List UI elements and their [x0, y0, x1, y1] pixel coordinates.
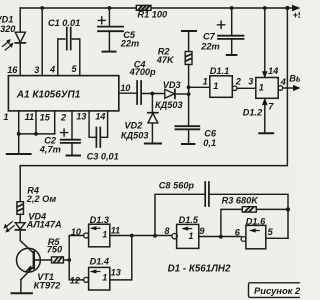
- wire VT1 base to R5: [34, 259, 52, 261]
- capacitor C8 branch: [155, 182, 288, 238]
- svg-text:11: 11: [25, 112, 35, 122]
- diode VD3: [165, 89, 189, 98]
- svg-text:1: 1: [102, 272, 107, 282]
- D1.2 pin 7 ground wire with arrow: [259, 99, 273, 134]
- wire right supply drop and lower feed: [20, 8, 287, 202]
- svg-text:3: 3: [248, 77, 253, 87]
- wire VD1 anode from rail: [19, 8, 21, 32]
- D1.2 pin 14 supply wire with arrow: [262, 8, 267, 77]
- svg-text:3: 3: [34, 65, 39, 75]
- inverter D1.6: [241, 225, 266, 248]
- svg-text:5: 5: [72, 64, 78, 74]
- node junction dot C5 rail: [108, 6, 112, 10]
- node junction dot gate input: [187, 85, 191, 89]
- resistor R1: [136, 5, 151, 10]
- capacitor C5 electrolytic: [98, 8, 123, 52]
- VD1 light arrows: [3, 40, 13, 51]
- svg-text:C6: C6: [204, 129, 217, 139]
- svg-text:D1.1: D1.1: [210, 66, 229, 76]
- svg-text:15: 15: [40, 112, 51, 122]
- svg-text:D1.4: D1.4: [90, 257, 109, 267]
- LED VD4: [15, 223, 25, 230]
- svg-text:4: 4: [49, 65, 55, 75]
- svg-text:13: 13: [76, 112, 86, 122]
- svg-text:11: 11: [111, 226, 121, 236]
- svg-text:13: 13: [111, 267, 121, 277]
- svg-text:КД503: КД503: [155, 100, 183, 110]
- wire pins 1 11 15 common: [7, 111, 55, 154]
- svg-text:14: 14: [95, 112, 105, 122]
- node junction dot 11-13: [130, 234, 134, 238]
- wire to D1.5 input: [132, 235, 172, 237]
- svg-text:1: 1: [3, 112, 8, 122]
- IC A1 K1056UP1 box: [8, 76, 118, 111]
- wire top supply rail left segment: [20, 7, 136, 9]
- VD4 light arrows: [4, 222, 14, 233]
- wire D1.3 output: [110, 235, 132, 237]
- wire VD1 cathode to pin 16: [19, 43, 21, 76]
- svg-text:VD3: VD3: [163, 80, 181, 90]
- svg-text:1: 1: [203, 77, 208, 87]
- svg-text:R1 100: R1 100: [138, 10, 169, 20]
- wire D1.2 output with arrow Vyh: [283, 85, 300, 90]
- svg-text:5: 5: [268, 227, 274, 237]
- svg-text:1: 1: [259, 82, 264, 92]
- resistor R3 branch: [221, 207, 288, 237]
- diode VD2: [145, 94, 161, 144]
- svg-text:D1.6: D1.6: [246, 216, 266, 226]
- resistor R5: [52, 257, 64, 263]
- resistor R4: [17, 202, 24, 215]
- svg-text:D1.2: D1.2: [243, 107, 263, 117]
- node junction dot pin14 rail: [263, 6, 267, 10]
- svg-text:С3 0,01: С3 0,01: [87, 151, 119, 161]
- svg-text:Вых: Вых: [289, 73, 300, 83]
- node junction dot VD3 cathode: [187, 92, 191, 96]
- node junction dot base: [67, 258, 71, 262]
- svg-text:47K: 47K: [156, 55, 175, 65]
- svg-text:4700p: 4700p: [129, 67, 156, 77]
- svg-text:750: 750: [47, 245, 63, 255]
- svg-text:VD1: VD1: [0, 14, 13, 24]
- node junction dot pin3 rail: [40, 6, 44, 10]
- wire R5 to gate inputs: [63, 259, 69, 261]
- wire D1.6 output: [266, 237, 288, 239]
- svg-text:АЛ147А: АЛ147А: [26, 219, 62, 229]
- svg-text:10: 10: [71, 227, 82, 237]
- svg-text:22m: 22m: [120, 39, 139, 49]
- inverter D1.5: [172, 224, 199, 248]
- svg-text:1: 1: [188, 231, 193, 241]
- node junction dot C7 rail: [230, 6, 234, 10]
- photodiode VD1: [15, 32, 25, 43]
- resistor R2 with top rail stub: [182, 31, 196, 126]
- svg-text:КТ972: КТ972: [34, 281, 62, 291]
- svg-text:Рисунок 2.: Рисунок 2.: [254, 285, 300, 296]
- wire D1.1 output to D1.2: [237, 87, 256, 89]
- svg-text:14: 14: [268, 66, 278, 76]
- svg-text:8: 8: [164, 226, 170, 236]
- node junction dot R3 left: [219, 235, 223, 239]
- wire pin 3 from rail: [41, 8, 43, 76]
- node junction dot R3 right: [286, 207, 290, 211]
- svg-text:2,2 Ом: 2,2 Ом: [26, 194, 57, 204]
- supply arrow +9V: [292, 5, 299, 11]
- wire VD4 to VT1 collector: [20, 230, 34, 253]
- capacitor C1: [58, 28, 80, 76]
- inverter D1.4: [84, 267, 110, 290]
- svg-text:22m: 22m: [200, 42, 219, 52]
- svg-text:1: 1: [213, 81, 218, 91]
- svg-text:16: 16: [7, 65, 18, 75]
- svg-text:10: 10: [120, 83, 131, 93]
- svg-text:C1 0.01: C1 0.01: [48, 18, 80, 28]
- node junction dot pin11: [34, 132, 38, 136]
- capacitor C3: [89, 111, 108, 147]
- inverter D1.1: [210, 76, 237, 98]
- svg-text:0,1: 0,1: [203, 138, 216, 148]
- svg-text:4: 4: [280, 77, 286, 87]
- svg-text:D1 - К561ЛН2: D1 - К561ЛН2: [168, 263, 231, 274]
- svg-text:ФД320: ФД320: [0, 24, 16, 34]
- inverter D1.2: [256, 78, 283, 99]
- wire D1.5 output to D1.6: [199, 236, 241, 238]
- node junction dot C4 VD2: [151, 92, 155, 96]
- caption box: [249, 283, 303, 298]
- transistor VT1: [12, 248, 41, 293]
- svg-text:D1.3: D1.3: [90, 215, 109, 225]
- inverter D1.3: [84, 224, 110, 247]
- svg-text:6: 6: [235, 228, 241, 238]
- capacitor C2 electrolytic: [61, 111, 80, 156]
- node junction dot right drop rail: [285, 6, 289, 10]
- wire D1.1 input: [189, 86, 210, 88]
- svg-text:2: 2: [235, 77, 242, 87]
- svg-text:4,7m: 4,7m: [39, 144, 61, 154]
- svg-text:1: 1: [102, 230, 107, 240]
- capacitor C7 electrolytic: [218, 8, 244, 55]
- capacitor C4: [119, 81, 165, 104]
- svg-text:C7: C7: [203, 32, 216, 42]
- svg-text:А1 К1056УП1: А1 К1056УП1: [16, 90, 81, 101]
- capacitor C6: [175, 126, 199, 144]
- svg-text:VD2: VD2: [124, 121, 143, 131]
- svg-text:2: 2: [60, 113, 67, 123]
- wire top supply rail right segment: [151, 7, 293, 9]
- svg-text:R3 680K: R3 680K: [222, 196, 260, 206]
- wire D1.4 output up to node: [110, 236, 132, 280]
- svg-text:9: 9: [199, 226, 205, 236]
- svg-text:D1.5: D1.5: [179, 215, 199, 225]
- svg-text:7: 7: [268, 101, 274, 111]
- svg-text:12: 12: [70, 276, 81, 286]
- node junction dot C8 branch: [153, 234, 157, 238]
- svg-text:C8 560p: C8 560p: [159, 180, 195, 190]
- svg-text:КД503: КД503: [121, 131, 149, 141]
- wire gate input branch: [69, 236, 83, 280]
- wire R4 to VD4: [19, 214, 21, 222]
- svg-text:+9: +9: [293, 10, 300, 20]
- node junction dot pin1: [17, 132, 21, 136]
